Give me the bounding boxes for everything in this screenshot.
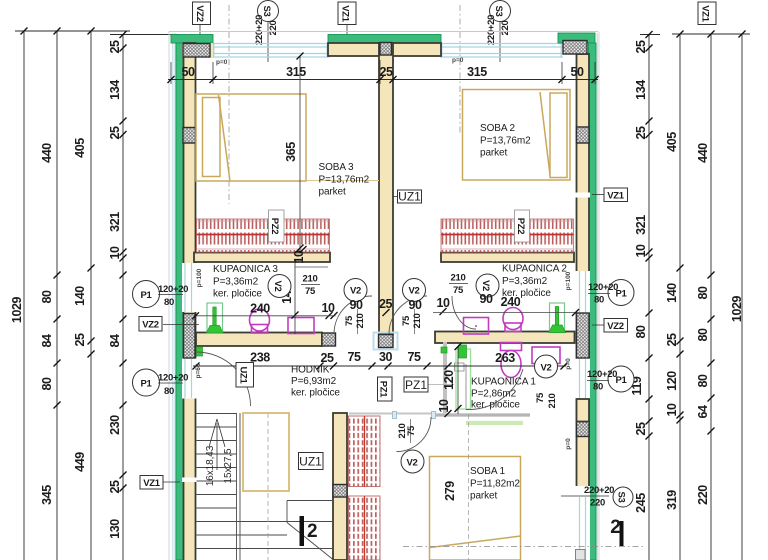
svg-text:S3: S3	[493, 5, 504, 16]
svg-text:75: 75	[406, 425, 417, 436]
svg-text:PZ1: PZ1	[378, 381, 389, 399]
svg-text:220+20: 220+20	[584, 485, 614, 496]
svg-text:parket: parket	[480, 148, 508, 159]
svg-text:220: 220	[500, 21, 511, 36]
svg-text:P1: P1	[140, 290, 152, 301]
svg-text:80: 80	[594, 295, 604, 306]
svg-text:p=100: p=100	[565, 271, 572, 290]
svg-text:P=13,76m2: P=13,76m2	[319, 175, 370, 186]
svg-text:VZ1: VZ1	[700, 5, 711, 23]
svg-text:P=11,82m2: P=11,82m2	[470, 479, 520, 490]
svg-text:90: 90	[408, 298, 422, 312]
svg-text:V2: V2	[272, 280, 283, 291]
svg-text:10: 10	[108, 246, 122, 260]
svg-text:90: 90	[479, 292, 493, 306]
svg-text:25: 25	[108, 126, 122, 140]
svg-text:KUPAONICA 3: KUPAONICA 3	[213, 264, 278, 275]
svg-text:50: 50	[181, 65, 195, 79]
svg-text:130: 130	[108, 519, 122, 539]
svg-text:V2: V2	[540, 363, 551, 374]
svg-text:S3: S3	[261, 5, 272, 16]
svg-text:64: 64	[696, 405, 710, 419]
svg-text:80: 80	[634, 325, 648, 339]
svg-text:220+20: 220+20	[486, 15, 497, 45]
svg-text:120+20: 120+20	[587, 369, 617, 380]
svg-text:84: 84	[108, 334, 122, 348]
svg-text:P1: P1	[615, 375, 627, 386]
svg-text:P=6,93m2: P=6,93m2	[291, 376, 337, 387]
svg-text:230: 230	[108, 415, 122, 435]
svg-text:345: 345	[40, 485, 54, 505]
svg-text:75: 75	[347, 350, 361, 364]
svg-text:405: 405	[665, 132, 679, 152]
svg-text:25: 25	[665, 333, 679, 347]
svg-text:80: 80	[696, 328, 710, 342]
svg-text:220: 220	[696, 485, 710, 505]
svg-text:25: 25	[379, 297, 393, 311]
svg-text:p=60: p=60	[195, 363, 202, 378]
svg-text:KUPAONICA 2: KUPAONICA 2	[502, 264, 567, 275]
svg-text:80: 80	[40, 377, 54, 391]
svg-text:245: 245	[634, 493, 648, 513]
svg-text:UZ1: UZ1	[238, 366, 249, 384]
svg-text:SOBA 3: SOBA 3	[319, 162, 355, 173]
svg-text:2: 2	[610, 517, 621, 538]
svg-text:25: 25	[379, 65, 393, 79]
svg-text:365: 365	[284, 142, 298, 162]
svg-text:120+20: 120+20	[158, 373, 188, 384]
svg-text:25: 25	[73, 333, 87, 347]
svg-text:75: 75	[453, 285, 464, 296]
svg-text:P=3,36m2: P=3,36m2	[213, 277, 259, 288]
svg-text:VZ2: VZ2	[607, 321, 624, 332]
svg-text:80: 80	[40, 290, 54, 304]
svg-text:405: 405	[73, 138, 87, 158]
svg-text:80: 80	[164, 386, 174, 397]
svg-text:VZ1: VZ1	[607, 191, 625, 202]
svg-text:10: 10	[292, 250, 306, 264]
svg-text:25: 25	[108, 40, 122, 54]
svg-text:120+20: 120+20	[158, 284, 188, 295]
svg-text:120: 120	[442, 370, 456, 390]
svg-text:1029: 1029	[10, 296, 24, 323]
svg-text:210: 210	[355, 314, 366, 329]
svg-text:25: 25	[634, 40, 648, 54]
svg-text:HODNIK: HODNIK	[291, 365, 330, 376]
svg-text:P1: P1	[140, 379, 152, 390]
svg-text:V2: V2	[480, 280, 491, 291]
svg-text:10: 10	[634, 244, 648, 258]
svg-text:parket: parket	[470, 491, 498, 502]
svg-text:p=0: p=0	[452, 57, 464, 64]
svg-text:UZ1: UZ1	[398, 190, 421, 204]
svg-text:V2: V2	[408, 286, 419, 297]
svg-text:VZ1: VZ1	[143, 478, 161, 489]
svg-text:P=13,76m2: P=13,76m2	[480, 136, 531, 147]
svg-text:KUPAONICA 1: KUPAONICA 1	[471, 377, 536, 388]
svg-text:25: 25	[634, 422, 648, 436]
svg-text:75: 75	[407, 350, 421, 364]
svg-text:SOBA 2: SOBA 2	[480, 123, 516, 134]
svg-text:p=0: p=0	[216, 59, 228, 66]
svg-text:75: 75	[344, 315, 355, 326]
svg-text:ker. pločice: ker. pločice	[213, 289, 262, 300]
svg-text:10: 10	[436, 296, 450, 310]
svg-text:440: 440	[40, 143, 54, 163]
svg-text:S3: S3	[616, 491, 627, 502]
svg-text:P=2,86m2: P=2,86m2	[471, 389, 517, 400]
svg-text:80: 80	[164, 297, 174, 308]
svg-text:84: 84	[40, 334, 54, 348]
svg-text:16x18,43: 16x18,43	[205, 445, 216, 486]
svg-text:V2: V2	[350, 286, 361, 297]
svg-text:PZ2: PZ2	[269, 218, 280, 235]
svg-text:25: 25	[634, 126, 648, 140]
svg-text:10: 10	[321, 301, 335, 315]
svg-text:10: 10	[437, 399, 451, 413]
svg-text:321: 321	[108, 212, 122, 232]
svg-text:134: 134	[634, 80, 648, 100]
svg-text:25: 25	[108, 480, 122, 494]
svg-text:p=100: p=100	[196, 268, 203, 287]
svg-text:PZ1: PZ1	[405, 378, 427, 392]
svg-text:25: 25	[320, 351, 334, 365]
svg-text:240: 240	[501, 295, 521, 309]
svg-text:220: 220	[268, 21, 279, 36]
svg-text:PZ2: PZ2	[515, 218, 526, 235]
svg-text:315: 315	[286, 65, 306, 79]
svg-text:210: 210	[412, 314, 423, 329]
svg-text:p=0: p=0	[565, 358, 572, 370]
svg-text:VZ2: VZ2	[194, 5, 205, 22]
svg-text:279: 279	[443, 481, 457, 501]
svg-text:SOBA 1: SOBA 1	[470, 466, 506, 477]
svg-text:210: 210	[547, 394, 558, 409]
svg-text:90: 90	[349, 298, 363, 312]
svg-text:440: 440	[696, 143, 710, 163]
svg-text:UZ1: UZ1	[299, 455, 322, 469]
svg-text:2: 2	[307, 521, 318, 542]
svg-text:80: 80	[696, 374, 710, 388]
svg-text:220: 220	[590, 498, 605, 509]
svg-text:30: 30	[379, 350, 393, 364]
svg-text:210: 210	[303, 274, 318, 285]
svg-text:240: 240	[250, 302, 270, 316]
svg-text:15x27,5: 15x27,5	[223, 448, 234, 483]
svg-text:p=0: p=0	[565, 438, 572, 450]
svg-text:1029: 1029	[730, 295, 744, 322]
svg-text:263: 263	[495, 351, 515, 365]
svg-text:315: 315	[467, 65, 487, 79]
svg-text:50: 50	[570, 65, 584, 79]
svg-text:ker. pločice: ker. pločice	[471, 400, 520, 411]
svg-text:75: 75	[401, 315, 412, 326]
svg-text:P=3,36m2: P=3,36m2	[502, 276, 548, 287]
svg-text:VZ2: VZ2	[142, 320, 159, 331]
svg-text:140: 140	[665, 283, 679, 303]
svg-text:V2: V2	[406, 458, 417, 469]
svg-text:parket: parket	[319, 187, 347, 198]
svg-text:120+20: 120+20	[588, 282, 618, 293]
svg-text:75: 75	[535, 392, 546, 403]
svg-text:319: 319	[665, 490, 679, 510]
svg-text:80: 80	[696, 286, 710, 300]
svg-text:140: 140	[73, 286, 87, 306]
svg-text:134: 134	[108, 80, 122, 100]
svg-text:210: 210	[451, 273, 466, 284]
svg-text:449: 449	[73, 452, 87, 472]
svg-text:VZ1: VZ1	[340, 5, 351, 23]
svg-text:321: 321	[634, 215, 648, 235]
svg-text:120: 120	[665, 371, 679, 391]
svg-text:75: 75	[305, 286, 316, 297]
svg-text:80: 80	[593, 382, 603, 393]
svg-text:10: 10	[665, 403, 679, 417]
svg-text:220+20: 220+20	[254, 15, 265, 45]
svg-text:ker. pločice: ker. pločice	[291, 388, 340, 399]
